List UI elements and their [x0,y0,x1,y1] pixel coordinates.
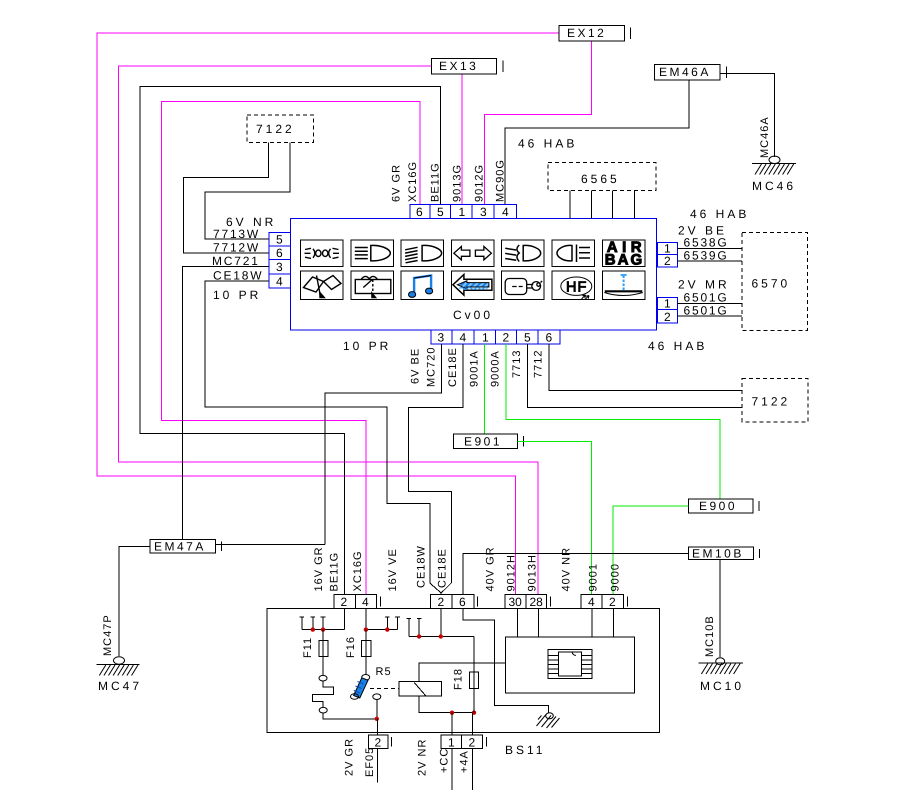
connector EX12 [559,26,631,42]
junction dot +CC [450,711,454,715]
component 7122 (right, dashed) [742,378,808,422]
wire 6565 leg 3 [612,191,614,219]
wire net BE11G black: cluster pin 5 up, left, down, to BS11 pin 2 [140,87,441,596]
wire EM47A left to MC47 ground [119,546,150,656]
svg-text:28: 28 [530,595,544,609]
BS11 bottom pin boxes 1,2 (+CC +4A) [441,735,487,748]
svg-text:BS11: BS11 [505,743,545,757]
wire EM10B left to BS11 CE pin 6 [463,554,689,595]
BS11 top connector 16V VE pin boxes 2,6 [431,594,478,608]
wire CE18W: cluster left pin 4 down to BS11 CE connector pin 2 [205,281,441,595]
svg-text:5: 5 [437,205,444,219]
junction dots F11 bus [311,627,315,631]
BS11 top connector 40V NR pin boxes 4,2 [581,594,628,608]
icon key immobiliser [505,279,542,295]
svg-text:3: 3 [480,205,487,219]
svg-text:9013G: 9013G [452,164,464,202]
instrument cluster Cv00 outline [291,219,657,331]
svg-text:2: 2 [503,331,510,345]
svg-text:30: 30 [509,595,523,609]
svg-text:MC721: MC721 [212,254,260,268]
svg-text:7713W: 7713W [213,227,260,241]
svg-text:EM46A: EM46A [659,65,711,79]
svg-text:MC10B: MC10B [704,615,716,657]
fuse F11 [319,630,328,675]
svg-text:1: 1 [448,735,455,749]
svg-text:5: 5 [276,233,283,247]
svg-text:7712W: 7712W [213,241,260,255]
svg-text:2: 2 [664,254,671,268]
svg-text:E900: E900 [699,499,737,513]
svg-text:Cv00: Cv00 [453,308,493,322]
wire net XC16G magenta: cluster pin 6 up, far-left down, to BS11 pin 4 [162,102,420,596]
F16 bus bar with connector stubs [366,609,400,630]
svg-text:4: 4 [276,275,283,289]
icon frames row 1 [301,240,645,266]
wire 9000A green: cluster bottom pin 2 to E900 [506,344,720,499]
svg-text:4: 4 [362,595,369,609]
wire +4A up to F18 [472,713,474,735]
svg-text:CE18W: CE18W [213,269,263,283]
svg-text:7122: 7122 [752,395,791,409]
svg-text:9012G: 9012G [474,164,486,202]
icon aerial [604,275,643,296]
svg-text:9001: 9001 [588,563,600,591]
ground MC46 [752,116,796,193]
svg-text:6V BE: 6V BE [410,348,422,384]
icon low beam [405,245,442,262]
component 7122 (left, dashed) [247,115,313,142]
cluster top pin row boxes [410,205,517,219]
connector E900 [689,499,759,513]
icon HF [561,277,592,300]
svg-text:F16: F16 [345,636,357,658]
component 6565 (dashed box) [548,163,656,191]
svg-text:R5: R5 [376,666,392,678]
wire 6538G [678,247,743,249]
BS11 top connector 16V GR pin boxes 2,4 [334,594,381,608]
wire coil bottom to +CC junction [419,696,474,713]
wire 7713: cluster bottom pin 5 to 7122 right box [527,344,742,408]
svg-text:+CC: +CC [439,748,451,773]
wire net 9012 magenta: EX12 bottom down-left to cluster pin 3 [485,42,592,206]
svg-text:2: 2 [341,595,348,609]
icon rear window wiper [355,276,391,297]
svg-text:CE18W: CE18W [416,545,428,588]
svg-text:MC10: MC10 [700,679,744,693]
svg-text:6: 6 [416,205,423,219]
svg-text:4: 4 [460,331,467,345]
svg-text:1: 1 [482,331,489,345]
svg-text:40V GR: 40V GR [485,546,497,591]
svg-text:MC720: MC720 [426,347,438,387]
svg-text:XC16G: XC16G [352,550,364,591]
svg-text:2: 2 [664,310,671,324]
wire CE pin 6 to internal ground [463,609,549,714]
wire CE18E: cluster bottom pin 4 down to BS11 CE connector pin 2 [409,344,463,593]
svg-text:10 PR: 10 PR [213,288,261,302]
wire EM46A right to MC46A ground [720,73,774,157]
ground MC47 [96,614,142,693]
wire pin 4 to control unit [591,609,593,637]
svg-text:EX13: EX13 [439,59,478,73]
wire 9000 green: E900 left to BS11 pin 2 [613,506,689,595]
wire 6501G (lower) [678,315,743,317]
svg-text:7712: 7712 [533,350,545,378]
svg-text:7713: 7713 [511,350,523,378]
svg-text:EM10B: EM10B [692,547,744,561]
wire pin 30 to control unit [516,609,518,637]
svg-text:2: 2 [438,595,445,609]
svg-text:E901: E901 [464,435,502,449]
wire +CC down [451,749,453,791]
wire 7712: cluster bottom pin 6 to 7122 right box [549,344,742,391]
svg-text:MC46: MC46 [752,179,796,193]
relay coil box [399,682,442,696]
wire pin 28 to control unit [538,609,540,637]
svg-text:4: 4 [502,205,509,219]
control unit box [505,637,634,693]
wire 9001A green: cluster bottom pin 1 to E901 [484,344,486,434]
svg-text:4: 4 [588,595,595,609]
wire 7713W: 7122 right leg to cluster left pin 5 [205,142,290,239]
svg-text:6538G: 6538G [684,236,729,250]
svg-text:3: 3 [438,331,445,345]
wire to pin 2 EF06 [376,719,378,735]
svg-text:3: 3 [276,260,283,274]
IC chip symbol [548,649,592,678]
cluster left pin column boxes [269,233,291,288]
svg-text:+4A: +4A [459,750,471,773]
cluster right pin boxes group 2 [658,298,678,324]
icon AIR BAG [605,239,646,268]
svg-text:6501G: 6501G [684,303,729,317]
svg-text:BE11G: BE11G [329,552,341,592]
component 6570 (dashed box) [742,232,807,330]
svg-text:9001A: 9001A [469,350,481,387]
connector EM47A [150,539,222,553]
svg-text:6: 6 [546,331,553,345]
wire net 9013 magenta: EX13 left to far-left down to BS11 pin 28 [119,66,538,595]
svg-text:2: 2 [609,595,616,609]
junction dot F18 bottom [472,711,476,715]
icon front fog lamp [505,245,541,262]
svg-text:HF: HF [566,279,587,295]
svg-text:F11: F11 [302,637,314,658]
connector EM10B [689,547,760,561]
wire EM47A right junction [215,544,325,546]
svg-text:6501G: 6501G [684,290,729,304]
wire 9001 green: E901 right to BS11 pin 4 [518,442,592,596]
wire 6565 leg 2 [591,191,593,219]
svg-text:2V NR: 2V NR [417,739,429,776]
CE bus bar with connector stubs [407,609,474,637]
svg-text:6: 6 [276,246,283,260]
wire +4A down [472,749,474,791]
svg-text:MC47P: MC47P [102,614,114,656]
svg-text:MC90G: MC90G [495,159,507,202]
internal ground symbol [537,713,560,728]
wire 7712W: 7122 left leg to cluster left pin 6 [183,142,269,252]
svg-text:46 HAB: 46 HAB [690,207,749,221]
svg-text:9000: 9000 [610,563,622,591]
cluster right pin boxes group 1 [658,242,678,267]
fuse F18 [469,637,478,713]
svg-text:BE11G: BE11G [430,162,442,202]
icon arrow telltale [453,275,492,296]
svg-text:5: 5 [524,331,531,345]
svg-text:1: 1 [459,205,466,219]
icon parking lights [305,248,340,258]
wire 6539G [678,260,743,262]
wire EM10B bottom to MC10 ground [719,560,721,658]
svg-text:9000A: 9000A [490,350,502,387]
svg-text:MC47: MC47 [98,679,142,693]
switch below F11 [313,675,377,718]
svg-text:10 PR: 10 PR [343,339,391,353]
junction dot switch/relay [375,717,379,721]
svg-text:6565: 6565 [581,172,620,186]
wire net 9013 magenta: EX13 bottom down to cluster pin 1 [461,75,463,206]
cluster bottom pin row boxes [431,330,560,344]
svg-text:40V NR: 40V NR [561,547,573,592]
F11 bus bar with connector stubs [300,609,345,630]
svg-text:46 HAB: 46 HAB [648,339,707,353]
junction dots CE bus [417,634,421,638]
wire 6501G (upper) [678,303,743,305]
svg-text:EM47A: EM47A [154,539,206,553]
icon turn signals [454,247,492,260]
svg-text:16V GR: 16V GR [313,546,325,591]
BS11 bottom pin box 2 (EF06) [368,735,391,748]
wire +CC up to bus [451,713,453,735]
wire MC720: cluster bottom pin 3 down-left to EM47A junction [325,344,442,545]
svg-text:EX12: EX12 [567,26,606,40]
svg-text:9012H: 9012H [506,554,518,591]
svg-text:9013H: 9013H [527,554,539,591]
connector EM46A [655,65,727,81]
svg-text:46 HAB: 46 HAB [518,137,577,151]
BS11 top connector 40V GR pin boxes 30,28 [505,594,551,608]
svg-text:CE18E: CE18E [447,347,459,387]
svg-text:6V GR: 6V GR [391,164,403,202]
svg-text:6570: 6570 [752,277,791,291]
wire pin 2 to control unit [612,609,614,637]
svg-text:2: 2 [469,735,476,749]
svg-text:F18: F18 [453,668,465,690]
svg-text:MC46A: MC46A [759,116,771,158]
relay R5 [351,675,400,719]
svg-text:6: 6 [459,595,466,609]
wire pin 2 down [376,749,378,783]
component BS11 fuse box outline [267,609,660,733]
svg-text:2V GR: 2V GR [344,738,356,776]
svg-text:1: 1 [664,297,671,311]
svg-text:16V VE: 16V VE [387,548,399,591]
svg-text:7122: 7122 [256,122,295,136]
icon frames row 2 [301,271,645,299]
icon high beam [355,245,391,260]
svg-text:EF05: EF05 [364,747,376,777]
connector E901 [453,434,523,448]
junction dots F16 bus [364,627,368,631]
wire 6565 leg 4 [633,191,635,219]
connector EX13 [432,59,504,75]
wire net MC90G black: EM46A bottom down-left to cluster pin 4 [505,81,689,206]
wire 6565 leg 1 [569,191,571,219]
wire MC721: cluster left pin 3 to EM47A top [182,267,269,540]
ground MC10 [698,615,744,693]
icon windscreen wiper [304,276,342,298]
fuse F16 [362,630,371,675]
svg-text:CE18E: CE18E [437,548,449,588]
icon chime [409,276,433,298]
svg-text:XC16G: XC16G [407,161,419,202]
wire coil top to control unit [419,663,505,682]
icon rear fog lamp [557,245,590,263]
wire net 9012 magenta: EX12 left to far-left down to BS11 pin 30 [97,33,559,595]
svg-text:BAG: BAG [605,251,644,268]
